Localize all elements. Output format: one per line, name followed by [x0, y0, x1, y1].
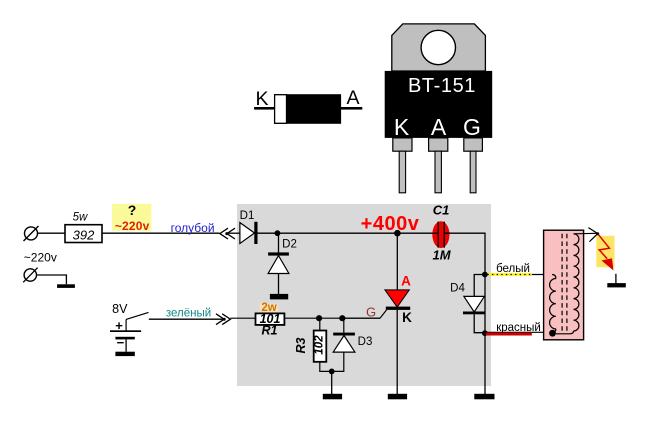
spark ground [615, 274, 617, 283]
wire node to ground [331, 371, 333, 394]
core dashed lines [561, 234, 563, 331]
svg-text:D4: D4 [450, 283, 465, 295]
svg-text:K: K [402, 310, 412, 325]
secondary winding (right) [574, 234, 579, 331]
svg-text:D3: D3 [358, 336, 373, 348]
primary winding (left, белый/красный) [552, 275, 556, 279]
ground thyristor [388, 394, 407, 400]
node windings bottom [549, 330, 556, 337]
ground D2 [270, 294, 288, 300]
svg-text:G: G [366, 305, 376, 320]
battery 8V [110, 302, 149, 356]
red wire [486, 331, 552, 333]
connector chevrons blue wire [220, 228, 235, 239]
TO-220 package BT-151 [385, 24, 493, 193]
cathode band [275, 95, 287, 124]
node D3 top [339, 315, 345, 321]
wire R1 to gate [284, 317, 380, 319]
svg-text:R1: R1 [262, 324, 278, 338]
resistor 392 [65, 212, 102, 243]
svg-text:K: K [256, 88, 269, 110]
diode D3 [332, 318, 373, 371]
svg-text:A: A [401, 274, 411, 289]
diode D2 [268, 233, 297, 294]
ground R3/D3 [323, 394, 342, 400]
svg-text:BT-151: BT-151 [408, 75, 476, 97]
node R3 top [316, 315, 322, 321]
node белый [482, 272, 488, 278]
svg-text:голубой: голубой [171, 221, 215, 235]
diode D1 [240, 210, 258, 244]
svg-text:белый: белый [496, 263, 530, 275]
node +400v [394, 230, 401, 237]
svg-text:+400v: +400v [361, 213, 420, 235]
svg-text:A: A [347, 87, 360, 109]
svg-text:зелёный: зелёный [166, 307, 211, 319]
body [275, 95, 341, 124]
svg-text:?: ? [128, 202, 137, 218]
tab [392, 24, 486, 71]
ground plug2 [57, 284, 75, 288]
resistor R1 [256, 302, 285, 337]
gray circuit background box [237, 204, 491, 386]
wire plug2 to ground [37, 275, 67, 284]
svg-text:5w: 5w [73, 212, 88, 224]
connector chevrons green wire [216, 314, 230, 325]
svg-text:K: K [394, 114, 410, 140]
capacitor C1 [432, 203, 452, 263]
svg-text:8V: 8V [112, 302, 128, 316]
node R3/D3 bottom [329, 369, 335, 375]
lightning highlight [596, 236, 614, 267]
yellow highlight ? ~220v [112, 202, 151, 233]
gate lead [342, 310, 386, 318]
ground right rail [474, 394, 494, 400]
mains plug 2 [23, 268, 37, 283]
white wire (yellow dotted) [488, 273, 532, 276]
svg-text:1M: 1M [432, 248, 451, 263]
wire plug1 to R392 [38, 232, 66, 234]
spark arrow head [588, 228, 597, 242]
svg-text:~220v: ~220v [24, 251, 57, 265]
switch arm [126, 312, 148, 319]
wire switch to arrows [149, 318, 224, 320]
svg-text:~220v: ~220v [115, 219, 150, 233]
wire arrows to R1 [230, 317, 255, 319]
svg-text:C1: C1 [433, 203, 450, 218]
body [385, 71, 493, 138]
wire C1 to right corner [445, 232, 486, 234]
leg stubs [393, 138, 412, 151]
wire D1 to +400 junction [258, 232, 433, 234]
svg-text:102: 102 [314, 335, 326, 355]
svg-text:D1: D1 [240, 210, 255, 222]
node красный [482, 330, 488, 336]
lightning bolt [598, 234, 613, 270]
diode D4 branch [450, 275, 485, 333]
svg-text:−: − [117, 335, 125, 350]
mounting hole [421, 30, 455, 64]
right vertical rail [484, 233, 486, 394]
svg-text:R3: R3 [294, 337, 308, 353]
mains plug 1 [24, 226, 39, 241]
transformer [544, 230, 598, 340]
wire arrows to D1 [227, 232, 240, 234]
thyristor VS1 [342, 233, 412, 394]
svg-text:G: G [463, 114, 481, 140]
svg-text:A: A [431, 114, 447, 140]
wire R392 to arrows [102, 232, 220, 234]
diode package drawing [254, 87, 362, 123]
node D1/D2 [275, 230, 281, 236]
svg-text:392: 392 [73, 228, 95, 243]
resistor R3 [294, 318, 332, 371]
svg-text:D2: D2 [282, 239, 297, 251]
secondary top lead to spark [574, 232, 598, 235]
lead wires [254, 107, 276, 110]
legs [399, 151, 405, 193]
